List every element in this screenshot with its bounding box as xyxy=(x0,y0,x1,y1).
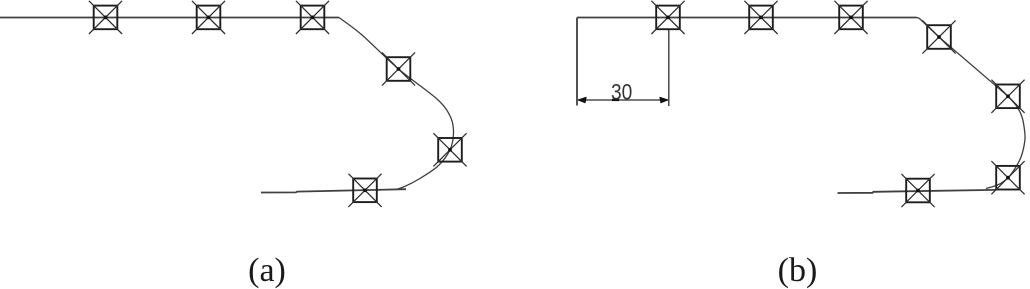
wire: figure (b) left vertical extension line xyxy=(576,18,578,106)
wire: figure (a) bottom horizontal line xyxy=(261,189,406,192)
svg-text:(a): (a) xyxy=(248,252,286,289)
point marker A1 xyxy=(89,1,122,34)
point marker B3 xyxy=(834,1,867,34)
point marker B6 xyxy=(991,161,1024,194)
point marker A4 xyxy=(382,52,415,85)
dimension arrowhead right xyxy=(660,97,668,102)
point marker A5 xyxy=(433,133,466,166)
point marker A6 xyxy=(348,174,381,207)
svg-text:(b): (b) xyxy=(778,252,818,289)
dimension text tick blob xyxy=(612,99,619,101)
point marker B5 xyxy=(991,80,1024,113)
point marker A2 xyxy=(192,1,225,34)
wire: figure (a) curved bend through P4 and P5 xyxy=(339,18,454,189)
wire: figure (b) top horizontal line xyxy=(577,17,917,19)
point marker A3 xyxy=(296,1,329,34)
wire: figure (b) bottom horizontal line xyxy=(838,190,997,193)
point marker B2 xyxy=(744,1,777,34)
wire: extension line below marker B1 xyxy=(668,29,670,106)
dimension arrowhead left xyxy=(579,97,587,102)
wire: figure (b) diagonal and curve through P4 P5 P6 xyxy=(917,18,1026,189)
point marker B1 xyxy=(651,1,684,34)
point marker B7 xyxy=(901,174,934,207)
point marker B4 xyxy=(922,20,955,53)
wire: figure (a) top horizontal line xyxy=(0,17,339,19)
svg-text:30: 30 xyxy=(611,80,632,105)
dimension line 30 xyxy=(578,99,668,101)
